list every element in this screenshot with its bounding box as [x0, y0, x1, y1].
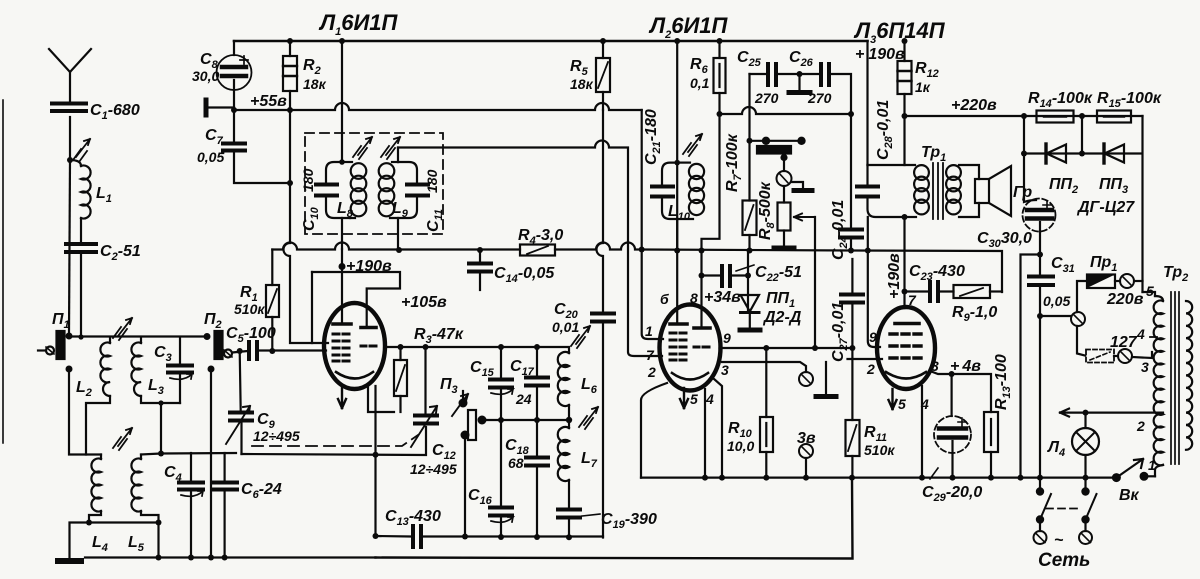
capacitor C7 0,05 — [223, 110, 290, 183]
wire R5 column down through C20 to osc ground — [597, 110, 604, 312]
switch Vk — [1112, 459, 1155, 482]
svg-text:5: 5 — [898, 396, 906, 412]
connector circle 127 — [1118, 349, 1152, 363]
test point circle lower — [799, 444, 813, 478]
wire C25 left down to volume control — [748, 74, 750, 141]
connector circle after fuse — [1120, 274, 1143, 288]
svg-text:8: 8 — [690, 290, 698, 306]
node C30 bottom branch — [1037, 252, 1043, 258]
diode PP1 D2-D — [740, 295, 760, 330]
tank circuit L9/C11 — [379, 148, 428, 251]
svg-text:18к: 18к — [303, 76, 327, 92]
wire +220V line — [905, 115, 1143, 117]
resistor R6 0,1 — [714, 41, 726, 114]
switch Set mains double pole — [1034, 478, 1097, 544]
svg-text:5: 5 — [690, 391, 698, 407]
wire L4-L5 bottoms link — [89, 521, 159, 523]
svg-text:10,0: 10,0 — [727, 438, 754, 454]
svg-text:2: 2 — [866, 361, 875, 377]
wire branch to right bus — [1021, 255, 1041, 478]
svg-text:+34в: +34в — [704, 289, 741, 306]
capacitor C8 electrolytic — [217, 41, 252, 110]
transformer Tr2 secondary winding — [1186, 301, 1192, 450]
node C2 join — [78, 334, 83, 339]
node R2 bottom — [287, 107, 293, 113]
switch P2 — [204, 331, 233, 558]
wire tube2 pin2 to bus — [641, 383, 667, 478]
tuning arrows I for L8 L9 — [353, 137, 372, 159]
svg-text:7: 7 — [908, 292, 917, 308]
wire antenna to P1 — [69, 160, 70, 332]
transformer Tr1 secondary and speaker loop — [946, 165, 979, 217]
wire R6 column to tube2 pin8 — [702, 114, 720, 328]
resistor R7 100k — [743, 141, 757, 251]
wire C9 bottom to C12 bottom (rotor line) — [242, 427, 427, 455]
ground bus left — [85, 556, 376, 558]
inductor L2 — [86, 337, 110, 455]
capacitor C15 trimmer — [490, 347, 513, 420]
tuning arrow I for L1 — [73, 139, 90, 162]
svg-text:68: 68 — [508, 455, 524, 471]
wire C4/C6 top line — [141, 453, 236, 455]
wire tube2 pin9 AF line — [720, 347, 853, 349]
svg-text:510к: 510к — [864, 442, 895, 458]
wire screen line from R6 to C26 — [720, 107, 852, 114]
terminal bar left of C7 — [206, 100, 234, 115]
tube3 heater arrow — [889, 389, 897, 409]
svg-text:2: 2 — [647, 364, 656, 380]
resistor R12 1k — [898, 41, 912, 116]
svg-text:220в: 220в — [1106, 291, 1144, 308]
wire heater line with arrow — [1060, 409, 1163, 417]
tuning arrow I for L10 — [683, 134, 702, 156]
tube U2 triode-heptode L2 — [660, 305, 721, 391]
wire tube1 pins bottom — [368, 387, 394, 412]
resistor R5 18k — [596, 41, 610, 110]
wire L8 column from bus — [341, 41, 343, 162]
node C14 tap — [477, 247, 483, 253]
tuning arrow I for L6 — [571, 326, 590, 348]
capacitor C4 trimmer — [179, 453, 203, 558]
wire P2 to C5 grid line — [232, 351, 248, 353]
wire P3 lower contact stub — [464, 435, 466, 537]
svg-text:1: 1 — [1148, 457, 1156, 473]
node C7/C8 junction — [231, 107, 237, 113]
selector plug circle 220V — [1071, 281, 1087, 326]
svg-text:12÷495: 12÷495 — [410, 461, 457, 477]
resistor R8 500k potentiometer — [774, 186, 815, 348]
capacitor C17 24 — [526, 347, 548, 420]
svg-text:+220в: +220в — [951, 97, 997, 114]
wire tube3 pin4 to bus — [921, 386, 923, 478]
label +190V anode point — [339, 263, 346, 270]
wire P1 bottom to L4 — [69, 369, 101, 455]
wire L8 bottom to triode anode of tube1 — [341, 249, 343, 324]
jack circle — [777, 154, 813, 191]
wire tube2 pin3 down and test points — [714, 379, 722, 478]
svg-text:5: 5 — [1146, 283, 1154, 299]
inductor L6 — [558, 352, 569, 420]
inductor L3 — [131, 337, 180, 403]
svg-text:3: 3 — [721, 362, 729, 378]
switch P3 — [452, 391, 487, 440]
capacitor C2 51 — [66, 244, 96, 337]
border line left edge — [2, 100, 4, 443]
ground — [58, 558, 81, 564]
lamp L4 — [1072, 413, 1099, 478]
wire +55 drop to tube2 pin1 — [642, 110, 663, 339]
wire L5 bottom to ground bus — [157, 523, 159, 558]
resistor R1 510k — [266, 250, 279, 352]
svg-text:4: 4 — [705, 391, 714, 407]
capacitor C14 0,05 — [469, 250, 491, 290]
node anode junction C23 — [902, 289, 908, 295]
capacitor C12 variable — [411, 347, 437, 447]
svg-text:Д2-Д: Д2-Д — [762, 309, 802, 326]
wire AGC line R1 to tube2 grid — [272, 243, 641, 250]
node C9 tap on grid line — [237, 348, 243, 354]
antenna W1 — [49, 49, 91, 160]
resistor R9 1,0 — [954, 285, 1003, 298]
node R14/R15 junction — [1079, 113, 1085, 119]
svg-text:б: б — [660, 291, 669, 307]
transformer Tr1 core — [933, 163, 943, 219]
wire bus right end down to Tr1 — [866, 41, 868, 165]
svg-text:9: 9 — [723, 330, 731, 346]
svg-text:0,05: 0,05 — [1043, 293, 1070, 309]
tuning arrow I for L4/L5 — [113, 428, 132, 450]
wire tube2 triode anode column with L10 tank — [676, 41, 678, 324]
node oscillator ground bus joints — [462, 534, 468, 540]
wire to ground symbol — [70, 523, 90, 560]
capacitor C23 430 — [905, 282, 954, 301]
volume control slider bar — [750, 137, 806, 161]
node L5 top — [158, 451, 164, 457]
wire long chassis line and link up to right bus — [376, 478, 853, 559]
diode PP2 — [1046, 144, 1066, 163]
node C7 to screen column — [287, 180, 293, 186]
svg-text:0,1: 0,1 — [690, 75, 710, 91]
capacitor C19 390 — [558, 510, 600, 538]
inductor L7 — [558, 420, 569, 508]
inductor L1 — [70, 160, 91, 242]
capacitor C6 24 — [213, 453, 237, 558]
wire to Tr2 pin5 — [1143, 292, 1156, 296]
wire +190V top bus — [234, 40, 868, 43]
svg-text:9: 9 — [869, 329, 877, 345]
svg-text:+55в: +55в — [250, 93, 287, 110]
switch P1 — [38, 331, 73, 373]
transformer Tr1 primary tank with C28 — [857, 116, 929, 308]
screened coil box L8 L9 dashed — [305, 133, 443, 234]
Tr2 tap pin4 — [1150, 336, 1157, 338]
capacitor C31 0,05 — [1029, 255, 1053, 478]
wire cathode pin3 line +4V — [930, 371, 991, 412]
wire detector node down — [747, 251, 749, 312]
svg-text:2: 2 — [1136, 418, 1145, 434]
svg-text:180: 180 — [424, 169, 440, 193]
node antenna/L1 junction — [67, 157, 73, 163]
transformer Tr2 core — [1171, 292, 1179, 464]
wire detector/+190 mid line — [642, 250, 1002, 293]
resistor R11 510k — [846, 359, 860, 478]
gang dashed link C9-C12 — [252, 435, 418, 446]
capacitor C5 100 — [249, 342, 326, 359]
tank circuit L8/C10 — [316, 162, 366, 249]
wire grid line tube1 to L6 — [385, 347, 569, 353]
svg-text:~: ~ — [1054, 532, 1064, 549]
tank circuit L10/C21 — [652, 163, 704, 251]
svg-text:270: 270 — [754, 90, 779, 106]
capacitor C22 51 — [702, 265, 755, 286]
svg-text:24: 24 — [515, 391, 532, 407]
speaker Gr — [975, 166, 1011, 216]
resistor R14 100k — [1037, 111, 1074, 123]
wire P3 to L6/L7 junction — [482, 419, 569, 421]
capacitor C24 0,01 — [840, 114, 862, 251]
transformer Tr2 primary winding — [1154, 296, 1163, 476]
svg-text:0,05: 0,05 — [197, 149, 224, 165]
svg-text:510к: 510к — [234, 301, 265, 317]
svg-text:30,0: 30,0 — [192, 68, 219, 84]
svg-text:Л16И1П: Л16И1П — [318, 10, 399, 38]
wire +55 screen drop to tube1 — [284, 110, 329, 343]
inductor L4 — [89, 455, 101, 523]
capacitor C29 electrolytic 20,0 — [930, 374, 971, 479]
svg-text:+105в: +105в — [401, 294, 447, 311]
svg-text:1к: 1к — [915, 79, 931, 95]
svg-text:7: 7 — [646, 347, 655, 363]
resistor R2 18k — [283, 41, 297, 110]
wire L3C3 bottom down to C4/C6 line — [160, 403, 162, 454]
wire +55V line with hops — [234, 103, 642, 110]
inductor L5 — [131, 455, 158, 523]
capacitor C1 680 — [52, 104, 86, 112]
svg-text:+4в: +4в — [950, 358, 981, 375]
tube U1 triode-heptode L1 — [324, 303, 385, 389]
wire selector line — [1040, 315, 1071, 317]
svg-text:1: 1 — [645, 323, 653, 339]
svg-text:Вк: Вк — [1119, 487, 1140, 504]
capacitor C13 430 — [376, 526, 604, 547]
svg-text:ДГ-Ц27: ДГ-Ц27 — [1076, 199, 1135, 216]
svg-text:Гр: Гр — [1013, 184, 1032, 201]
capacitor C18 68 — [526, 420, 548, 538]
tube2 heater arrow — [680, 388, 688, 408]
tube U3 output pentode L3 — [877, 307, 935, 389]
capacitor C20 0,01 — [592, 314, 614, 538]
fuse housing 127 dashed — [1086, 350, 1118, 363]
wire screen feed pin9 — [868, 217, 880, 347]
test point circle upper — [799, 362, 836, 397]
node tube cathode line crossing rotor line — [373, 452, 379, 458]
fuse Pr1 — [1087, 275, 1120, 289]
tuning arrow I for L2/L3 — [113, 318, 132, 340]
capacitor C3 trimmer — [168, 337, 192, 403]
wire +105V feed — [312, 272, 400, 327]
wire oscillator line L9 top to tube2 — [398, 141, 662, 356]
capacitor C27 0,01 — [841, 259, 863, 359]
wire P1 top to L2/L3 tops — [69, 335, 207, 337]
resistor R13 100 — [984, 412, 998, 478]
chassis bar between C25 C26 — [789, 71, 810, 93]
wire right ground bus — [641, 477, 1116, 479]
svg-text:Сеть: Сеть — [1038, 550, 1090, 571]
wire 127V tap line — [1077, 326, 1085, 356]
capacitor C30 electrolytic 30,0 — [1023, 154, 1056, 255]
capacitor C26 270 — [821, 64, 851, 114]
resistor R4 3,0 — [520, 245, 555, 256]
svg-text:Л26И1П: Л26И1П — [648, 13, 729, 41]
svg-text:18к: 18к — [570, 76, 594, 92]
svg-text:180: 180 — [300, 168, 316, 192]
svg-text:12÷495: 12÷495 — [253, 428, 300, 444]
svg-text:+190в: +190в — [886, 253, 903, 299]
node L3 bottom — [158, 400, 163, 405]
node C31 bottom / selector — [1037, 313, 1043, 319]
wire grid pin2 line — [848, 358, 883, 360]
capacitor C9 variable — [226, 351, 252, 454]
resistor R10 10,0 — [760, 348, 773, 478]
capacitor C25 270 — [750, 64, 821, 85]
wire tube2 pin4 to bus — [704, 389, 706, 478]
svg-text:3: 3 — [1141, 359, 1149, 375]
resistor R3 47k — [394, 347, 407, 412]
svg-text:4: 4 — [1136, 326, 1145, 342]
wire rectifier line — [1024, 116, 1143, 292]
tube1 cathode heater arrow — [338, 385, 346, 408]
resistor R15 100k — [1097, 111, 1131, 123]
svg-text:0,01: 0,01 — [552, 319, 579, 335]
capacitor C16 trimmer — [490, 420, 513, 538]
node L9 bottom on AGC line — [396, 247, 402, 253]
diode PP3 — [1104, 144, 1124, 163]
tuning arrow I mid L6L7 — [579, 407, 598, 429]
